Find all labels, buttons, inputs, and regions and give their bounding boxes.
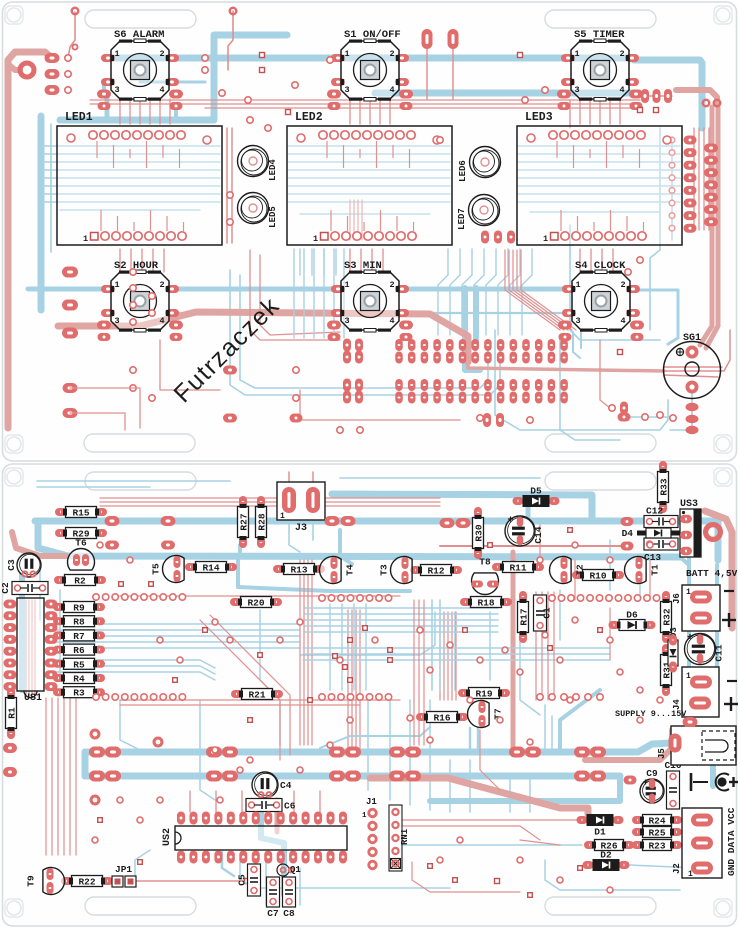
pad — [389, 747, 405, 758]
resistor R31 — [661, 644, 673, 696]
wire — [119, 99, 121, 124]
pad — [684, 199, 697, 208]
pad — [45, 69, 60, 79]
wire thick middle — [58, 312, 468, 362]
wire — [163, 249, 165, 272]
via — [376, 595, 382, 601]
svg-text:T3: T3 — [379, 564, 390, 576]
wire — [510, 275, 520, 335]
switch S4 CLOCK — [562, 260, 640, 332]
pad — [686, 403, 699, 412]
wire — [90, 99, 640, 101]
pad — [355, 339, 363, 352]
wire — [634, 60, 702, 128]
regulator US3 — [680, 499, 701, 557]
wire — [305, 613, 498, 615]
svg-text:US2: US2 — [162, 828, 173, 846]
pad — [509, 747, 525, 758]
pad — [405, 747, 421, 758]
via — [98, 818, 103, 823]
via — [237, 767, 243, 773]
wire — [389, 700, 391, 800]
wire — [44, 185, 220, 187]
mounting hole — [7, 437, 21, 451]
wire — [429, 700, 431, 810]
via — [542, 87, 548, 93]
svg-text:D2: D2 — [600, 850, 612, 861]
svg-text:C11: C11 — [714, 644, 725, 661]
board outline (main board) — [3, 464, 737, 926]
wire — [382, 249, 384, 272]
mounting slot — [545, 897, 656, 915]
wire — [423, 600, 425, 745]
wire — [630, 865, 697, 868]
wire — [471, 249, 473, 275]
pad — [653, 89, 661, 103]
svg-text:C14: C14 — [533, 526, 544, 543]
svg-text:LED2: LED2 — [295, 111, 323, 124]
capacitor C2 — [0, 582, 48, 595]
svg-text:4: 4 — [159, 316, 164, 326]
capacitor C4 — [252, 772, 292, 798]
pad — [343, 351, 351, 364]
wire — [172, 287, 337, 292]
svg-text:R33: R33 — [659, 478, 670, 495]
wire — [639, 560, 641, 600]
pad — [494, 231, 502, 244]
via — [542, 632, 548, 638]
wire — [299, 560, 301, 745]
wire — [520, 640, 540, 715]
pad — [161, 541, 175, 550]
svg-text:1: 1 — [344, 280, 349, 290]
pad — [510, 379, 518, 391]
transistor T7 — [467, 701, 503, 728]
via — [625, 269, 631, 275]
via — [348, 638, 353, 643]
wire — [159, 99, 161, 124]
jumper JP1 — [112, 864, 136, 887]
via — [366, 595, 372, 601]
pad — [222, 771, 238, 782]
resistor R32 — [661, 591, 673, 643]
pad — [459, 339, 467, 351]
via — [617, 669, 623, 675]
via — [130, 367, 136, 373]
via — [319, 694, 325, 700]
transistor T2 — [550, 556, 586, 583]
via — [528, 893, 533, 898]
svg-text:3: 3 — [114, 85, 119, 95]
via — [477, 657, 483, 663]
pad — [395, 339, 403, 351]
wire — [579, 249, 581, 272]
wire — [687, 548, 691, 678]
pad — [329, 771, 345, 782]
mounting hole — [7, 901, 21, 915]
wire — [483, 249, 485, 275]
svg-text:C1: C1 — [542, 607, 553, 619]
wire — [403, 819, 583, 821]
mounting hole — [716, 901, 730, 915]
svg-text:4: 4 — [619, 85, 624, 95]
polarity symbol — [691, 773, 738, 791]
via — [637, 687, 643, 693]
wire — [357, 200, 359, 240]
svg-text:R9: R9 — [73, 603, 85, 614]
wire — [670, 392, 692, 430]
pad — [618, 413, 631, 422]
wire — [48, 623, 300, 625]
pad — [105, 516, 120, 526]
wire — [293, 791, 295, 812]
pad — [223, 414, 237, 423]
wire — [369, 99, 371, 124]
wire — [403, 826, 540, 840]
svg-text:JP1: JP1 — [115, 864, 132, 875]
via — [217, 797, 223, 803]
via — [385, 595, 391, 601]
pad — [629, 90, 643, 99]
wire — [222, 852, 234, 876]
wire — [379, 99, 381, 124]
resistor R9 — [53, 602, 105, 614]
wire — [349, 99, 351, 124]
wire — [412, 862, 520, 892]
via — [568, 595, 574, 601]
svg-text:R14: R14 — [202, 563, 219, 574]
transistor T8 — [471, 557, 499, 595]
wire — [335, 249, 337, 275]
wire — [389, 99, 391, 124]
svg-text:C7: C7 — [267, 908, 279, 919]
svg-text:S5 TIMER: S5 TIMER — [574, 29, 625, 41]
wire — [351, 610, 353, 748]
wire — [347, 610, 349, 748]
wire — [495, 330, 668, 430]
svg-text:SG1: SG1 — [683, 333, 701, 344]
svg-text:R7: R7 — [73, 631, 85, 642]
pad — [510, 339, 518, 351]
via — [160, 694, 166, 700]
svg-text:R30: R30 — [474, 524, 485, 541]
pad — [345, 747, 361, 758]
wire — [706, 107, 718, 348]
pad — [686, 415, 699, 424]
svg-text:S1 ON/OFF: S1 ON/OFF — [344, 29, 401, 41]
resistor R1 — [6, 687, 18, 739]
via — [119, 582, 124, 587]
wire — [60, 209, 200, 211]
wire — [451, 612, 453, 700]
svg-text:C6: C6 — [284, 801, 296, 812]
wire — [349, 200, 351, 240]
pad — [560, 339, 568, 351]
connector J2 — [672, 808, 722, 879]
wire — [241, 791, 243, 812]
svg-text:R28: R28 — [257, 513, 268, 530]
svg-text:R1: R1 — [7, 707, 18, 719]
pad — [522, 392, 530, 404]
via — [308, 698, 313, 703]
pad — [497, 339, 505, 351]
wire — [649, 560, 651, 600]
diode D4 — [622, 528, 680, 539]
svg-text:1: 1 — [280, 512, 285, 521]
pad — [89, 771, 105, 782]
via — [247, 117, 253, 123]
pad — [62, 328, 78, 339]
svg-text:R3: R3 — [73, 688, 85, 699]
wire — [560, 690, 600, 752]
svg-text:S6 ALARM: S6 ALARM — [114, 29, 164, 41]
pad — [446, 352, 454, 364]
wire — [609, 99, 611, 124]
pad — [483, 413, 491, 427]
via — [558, 595, 564, 601]
via — [427, 737, 433, 743]
wire — [700, 107, 712, 345]
resistor R18 — [460, 597, 512, 609]
via — [72, 44, 77, 49]
wire — [474, 275, 484, 335]
via — [502, 647, 508, 653]
svg-text:C3: C3 — [6, 559, 17, 571]
pad — [590, 747, 606, 758]
via — [343, 665, 348, 670]
wire — [120, 700, 140, 750]
pad — [684, 148, 697, 157]
wire thick bottom — [370, 778, 588, 814]
via — [338, 595, 344, 601]
pad — [459, 352, 467, 364]
via — [202, 67, 208, 73]
wire — [518, 145, 680, 147]
via — [548, 646, 553, 651]
via — [141, 594, 147, 600]
wire — [19, 560, 25, 690]
wire — [609, 540, 611, 590]
wire thick right edge — [705, 511, 732, 628]
svg-text:LED1: LED1 — [65, 111, 93, 124]
pad — [63, 408, 78, 418]
via — [319, 595, 325, 601]
wire — [509, 780, 511, 812]
wire — [37, 486, 150, 488]
pad — [535, 339, 543, 351]
pad — [630, 102, 643, 110]
wire — [82, 752, 89, 776]
plus symbol J4 — [724, 703, 738, 705]
wire — [703, 128, 705, 230]
svg-text:LED3: LED3 — [525, 111, 553, 124]
wire — [671, 140, 673, 240]
capacitor C1 — [534, 595, 553, 631]
svg-text:US1: US1 — [24, 693, 42, 704]
wire — [320, 727, 430, 748]
via — [122, 594, 128, 600]
wire — [39, 560, 41, 620]
via — [495, 879, 500, 884]
svg-text:1: 1 — [688, 870, 693, 879]
via — [297, 767, 303, 773]
wire — [48, 629, 300, 631]
wire — [174, 106, 178, 120]
via — [669, 162, 675, 168]
svg-text:1: 1 — [574, 49, 579, 59]
resistor R30 — [473, 507, 485, 559]
via — [607, 637, 613, 643]
svg-text:LED4: LED4 — [268, 159, 278, 181]
wire — [367, 700, 369, 790]
resistor R7 — [53, 630, 105, 642]
via — [518, 53, 523, 58]
mounting hole — [716, 470, 730, 484]
pad — [559, 333, 572, 341]
LED LED5 — [238, 193, 279, 228]
LED LED7 — [457, 195, 500, 230]
via — [573, 694, 579, 700]
wire — [240, 860, 450, 888]
pad — [169, 321, 183, 330]
via — [130, 285, 136, 291]
wire — [105, 94, 110, 120]
via — [102, 694, 108, 700]
pad — [704, 205, 718, 214]
wire — [311, 249, 313, 275]
wire — [359, 610, 361, 748]
via — [327, 742, 333, 748]
via — [669, 225, 675, 231]
via — [286, 110, 291, 115]
svg-text:R4: R4 — [73, 674, 85, 685]
via — [112, 594, 118, 600]
wire — [48, 641, 300, 643]
connector J4 — [672, 667, 719, 717]
IC US2 — [162, 812, 347, 864]
pad — [560, 352, 568, 364]
wire — [228, 11, 233, 70]
via — [137, 817, 143, 823]
via — [606, 595, 612, 601]
via — [337, 657, 343, 663]
wire — [447, 612, 449, 700]
wire — [100, 501, 440, 503]
wire — [119, 249, 121, 272]
wire — [48, 635, 300, 637]
via — [577, 595, 583, 601]
svg-text:2: 2 — [389, 49, 394, 59]
svg-text:R20: R20 — [247, 598, 264, 609]
resistor network RN1 — [389, 805, 410, 871]
wire — [205, 107, 630, 109]
wire — [574, 560, 576, 600]
wire — [518, 201, 680, 203]
wire — [303, 659, 610, 661]
board outline (display board) — [3, 2, 737, 461]
wire — [48, 647, 300, 649]
svg-text:T2: T2 — [575, 564, 586, 576]
pad — [105, 541, 119, 550]
wire — [303, 560, 305, 745]
via — [670, 415, 676, 421]
pad — [72, 8, 79, 15]
wire — [405, 312, 567, 314]
wire — [50, 124, 52, 252]
mounting slot — [545, 10, 656, 28]
wire — [313, 249, 315, 338]
wire — [51, 698, 53, 855]
wire — [34, 600, 36, 695]
wire — [486, 275, 496, 335]
resistor R5 — [53, 658, 105, 670]
pad — [522, 379, 530, 391]
via — [247, 757, 253, 763]
wire — [513, 250, 568, 330]
svg-text:T4: T4 — [345, 564, 356, 576]
wire — [100, 497, 440, 499]
pad — [560, 392, 568, 404]
svg-text:R11: R11 — [509, 563, 526, 574]
pad — [405, 771, 421, 782]
wire — [230, 270, 500, 395]
wire — [535, 592, 537, 700]
svg-text:R18: R18 — [477, 598, 494, 609]
resistor R11 — [492, 562, 544, 574]
mounting hole — [716, 437, 730, 451]
via — [657, 412, 663, 418]
wire — [59, 590, 61, 680]
svg-text:R32: R32 — [662, 608, 673, 625]
via — [488, 543, 493, 548]
wire — [333, 249, 335, 338]
wire — [288, 169, 450, 171]
wire — [28, 600, 30, 695]
wire — [541, 592, 543, 700]
wire — [37, 480, 230, 482]
via — [93, 594, 99, 600]
wire — [173, 312, 336, 314]
via — [642, 414, 648, 420]
capacitor C3 — [6, 553, 41, 577]
pad — [471, 339, 479, 351]
wire — [612, 249, 614, 272]
pad — [535, 379, 543, 391]
wire — [57, 698, 59, 855]
via — [212, 619, 218, 625]
wire — [8, 64, 20, 70]
pad — [704, 144, 718, 153]
wire — [664, 366, 722, 368]
via — [131, 594, 137, 600]
via — [328, 595, 334, 601]
via — [293, 367, 299, 373]
pad — [484, 392, 492, 404]
wire — [353, 200, 355, 240]
LED LED6 — [458, 147, 501, 182]
wire — [120, 704, 360, 706]
pad — [510, 352, 518, 364]
wire — [44, 169, 220, 171]
pad — [548, 392, 556, 404]
wire — [520, 840, 560, 845]
plus symbol — [722, 619, 736, 621]
via — [122, 694, 128, 700]
wire — [288, 193, 450, 195]
pad — [590, 771, 606, 782]
wire — [349, 249, 351, 272]
resistor R3 — [53, 687, 105, 699]
